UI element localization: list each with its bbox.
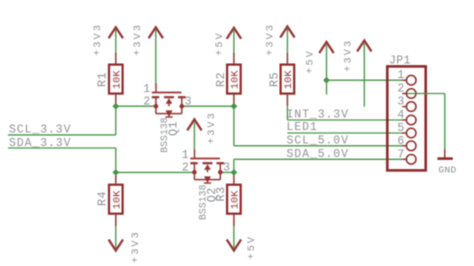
connector JP1 [387,55,425,171]
svg-text:Q1: Q1 [166,121,180,136]
svg-text:10K: 10K [231,190,242,209]
resistor R3 10K [214,185,242,214]
wire Q1 pin 3 to node [184,105,234,107]
svg-text:+3V3: +3V3 [131,230,142,263]
svg-text:5: 5 [397,122,405,135]
svg-text:10K: 10K [284,70,295,89]
junction node SDA_3.3V / R4 [112,169,119,176]
junction node +5V [323,77,330,84]
supply +3V3 arrow above Q2 gate [187,111,218,150]
wire Q2 pin 3 to node [222,171,234,173]
wire JP1 pin 2 to GND [407,94,445,151]
svg-text:10K: 10K [113,190,124,209]
svg-text:4: 4 [397,109,405,122]
ground GND [437,150,456,176]
transistor Q1 BSS138 [143,83,192,153]
resistor R5 10K [267,65,295,94]
wire R2 bottom pin to node [233,94,235,107]
wire SDA_3.3V [8,148,116,172]
net label SDA_3.3V [9,137,71,150]
net label SCL_3.3V [9,123,71,136]
transistor Q2 BSS138 [182,149,231,220]
svg-text:10K: 10K [113,70,124,89]
junction node SCL_3.3V / R1 [112,103,119,110]
supply +3V3 arrow above R5 [265,23,294,65]
svg-text:3: 3 [397,96,405,109]
net label LED1 [287,121,318,134]
svg-text:R4: R4 [96,191,110,206]
svg-text:R1: R1 [96,72,110,87]
supply +5V arrow above R2 [215,28,241,65]
wire SCL_3.3V [8,106,116,135]
resistor R2 10K [214,65,242,94]
wire R5 bottom to JP1 pin 4 (INT_3.3V) [287,94,402,120]
junction node SDA_5.0V / R3 [231,169,238,176]
svg-text:3: 3 [223,161,231,174]
resistor R1 10K [96,65,124,94]
svg-text:1: 1 [143,83,151,96]
supply +3V3 arrow for JP1 pin 3 [343,39,371,107]
net label SCL_5.0V [287,134,349,147]
supply +3V3 arrow above R1 [93,23,123,65]
svg-text:3: 3 [185,95,193,108]
svg-text:10K: 10K [231,70,242,89]
svg-text:1: 1 [397,69,405,82]
svg-text:+3V3: +3V3 [93,23,104,56]
supply +5V arrow below R3 [227,214,258,260]
svg-text:+3V3: +3V3 [265,23,276,56]
svg-text:+5V: +5V [247,235,258,260]
svg-text:+3V3: +3V3 [133,23,144,56]
supply +5V arrow for JP1 pin 1 [305,42,333,80]
svg-text:Q2: Q2 [205,187,219,202]
wire +5V to JP1 pin 1 [327,79,403,81]
wire +5V stub [326,80,328,94]
svg-text:R5: R5 [267,72,281,87]
svg-text:+5V: +5V [305,49,316,74]
svg-text:GND: GND [438,164,456,175]
svg-text:INT_3.3V: INT_3.3V [287,109,349,122]
svg-text:SCL_5.0V: SCL_5.0V [287,134,349,147]
svg-text:SDA_5.0V: SDA_5.0V [287,148,349,161]
wire SCL_5.0V to JP1 pin 6 [234,106,403,146]
svg-text:+3V3: +3V3 [207,111,218,144]
svg-text:R2: R2 [214,72,228,87]
net label INT_3.3V [287,109,349,122]
svg-text:2: 2 [143,95,151,108]
wire R4 top stub [115,172,117,184]
wire node to Q2 pin 2 [116,171,192,173]
svg-text:+5V: +5V [215,31,226,56]
svg-text:LED1: LED1 [287,121,318,134]
svg-text:7: 7 [397,148,405,161]
supply +3V3 arrow below R4 [109,214,143,263]
svg-text:JP1: JP1 [389,55,411,68]
svg-text:1: 1 [182,149,190,162]
wire R1 bottom pin to node [115,94,117,107]
svg-text:2: 2 [182,161,190,174]
resistor R4 10K [96,185,124,214]
svg-text:+3V3: +3V3 [343,39,354,72]
svg-text:2: 2 [397,83,405,96]
wire R3 top stub [233,172,235,184]
wire LED1 to JP1 pin 5 [287,132,402,134]
wire node to Q1 pin 2 [116,105,154,107]
net label SDA_5.0V [287,148,349,161]
supply +3V3 arrow above Q1 gate [133,23,163,85]
svg-text:6: 6 [397,135,405,148]
wire SDA_5.0V to JP1 pin 7 [234,159,403,172]
junction node SCL_5.0V / R2 [231,103,238,110]
